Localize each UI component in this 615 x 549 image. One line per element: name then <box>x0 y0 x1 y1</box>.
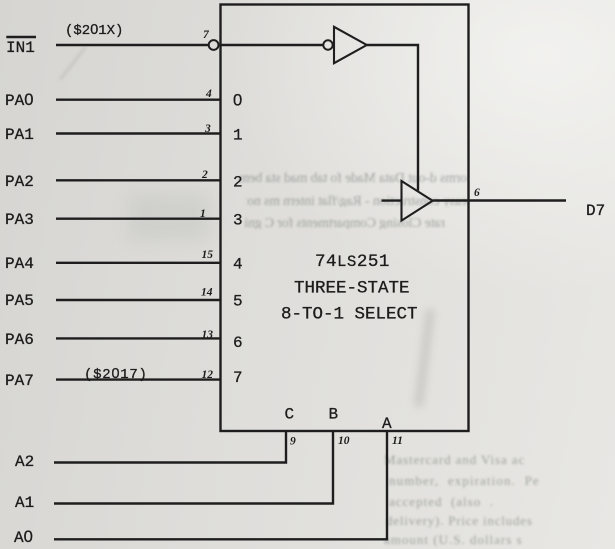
svg-text:6: 6 <box>233 334 243 352</box>
wire PA7 <box>56 378 221 380</box>
overline of IN1 label <box>6 36 36 38</box>
wire select C to A2 <box>54 431 286 463</box>
svg-text:5: 5 <box>233 293 243 311</box>
paper smudges (decorative) <box>414 308 435 408</box>
svg-text:A1: A1 <box>15 494 34 512</box>
svg-text:B: B <box>329 406 339 424</box>
svg-text:4: 4 <box>205 88 212 100</box>
svg-text:THREE-STATE: THREE-STATE <box>294 279 410 299</box>
svg-text:C: C <box>285 406 295 424</box>
svg-text:PA7: PA7 <box>5 372 34 390</box>
svg-text:3: 3 <box>204 123 211 135</box>
svg-text:7: 7 <box>203 29 210 41</box>
tri-state output buffer U1b triangle <box>402 181 433 221</box>
svg-text:74LS251: 74LS251 <box>315 252 390 272</box>
svg-text:13: 13 <box>202 329 214 341</box>
bleed-through ghost text bottom-right block (decorative) <box>384 452 525 468</box>
svg-text:A0: A0 <box>14 527 33 547</box>
wire PA4 <box>56 262 221 264</box>
wire PA5 <box>56 299 221 301</box>
svg-text:A2: A2 <box>15 453 34 471</box>
svg-text:IN1: IN1 <box>6 39 35 57</box>
svg-text:2: 2 <box>201 169 208 181</box>
wire PA6 <box>56 337 221 339</box>
wire PA2 <box>56 179 221 181</box>
inverter U1a triangle <box>334 27 367 63</box>
svg-text:PA1: PA1 <box>5 126 34 144</box>
wire inverter output to enable (right then down) <box>367 45 418 191</box>
svg-text:7: 7 <box>233 369 243 387</box>
svg-text:9: 9 <box>290 436 296 448</box>
svg-text:8-TO-1 SELECT: 8-TO-1 SELECT <box>281 305 418 325</box>
svg-text:PA2: PA2 <box>5 173 34 191</box>
svg-text:($2017): ($2017) <box>84 366 148 383</box>
wire IN1 internal to inverter <box>221 44 324 46</box>
svg-text:2: 2 <box>233 174 243 192</box>
svg-text:11: 11 <box>392 435 403 447</box>
svg-text:1: 1 <box>200 208 206 220</box>
svg-text:6: 6 <box>474 187 480 199</box>
svg-text:PA3: PA3 <box>5 211 34 229</box>
wire PA3 <box>56 217 221 219</box>
svg-text:4: 4 <box>233 256 243 274</box>
svg-text:0: 0 <box>233 91 242 110</box>
wire IN1 input <box>56 44 209 46</box>
inverter U1a input bubble <box>323 40 332 49</box>
svg-text:12: 12 <box>202 369 214 381</box>
svg-text:PA6: PA6 <box>5 331 34 349</box>
wire PA0 <box>56 98 221 100</box>
svg-text:3: 3 <box>233 212 243 230</box>
wire buffer input stub <box>382 199 402 201</box>
inversion bubble pin 7 <box>209 40 219 50</box>
wire PA1 <box>56 132 221 134</box>
svg-text:15: 15 <box>202 249 214 261</box>
svg-text:1: 1 <box>233 127 243 145</box>
IC U1 74LS251 body <box>221 5 469 432</box>
wire output pin 6 to D7 <box>433 199 566 201</box>
svg-text:D7: D7 <box>586 202 605 220</box>
svg-text:10: 10 <box>338 435 350 447</box>
svg-text:14: 14 <box>201 287 213 299</box>
bleed-through ghost text (decorative) <box>238 170 467 184</box>
svg-text:PA4: PA4 <box>5 255 34 273</box>
wire select B to A1 <box>54 431 333 504</box>
svg-text:PA0: PA0 <box>5 90 33 110</box>
svg-text:($201X): ($201X) <box>65 22 123 39</box>
svg-text:A: A <box>382 415 392 433</box>
svg-text:PA5: PA5 <box>5 292 34 310</box>
wire select A to A0 <box>54 431 387 539</box>
